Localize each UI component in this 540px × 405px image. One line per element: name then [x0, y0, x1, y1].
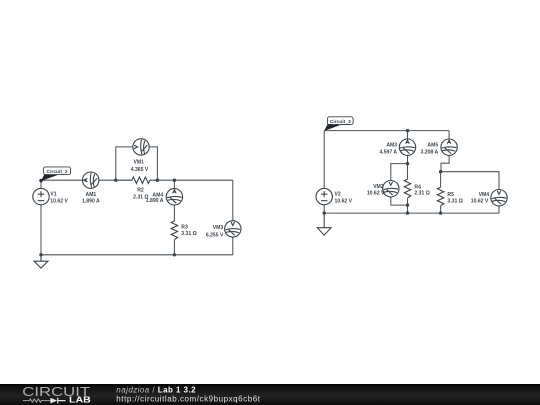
- junction V2 bottom / ground: [323, 211, 326, 214]
- svg-text:R5: R5: [447, 192, 454, 198]
- ammeter AM4: [166, 189, 182, 205]
- wire VM1 parallel loop: [116, 147, 158, 180]
- resistor R4: [404, 179, 410, 198]
- junction R5 top node: [439, 170, 442, 173]
- voltmeter VM1: [133, 139, 149, 155]
- junction bottom rail at V1/ground: [39, 253, 42, 256]
- svg-text:R2: R2: [137, 188, 144, 194]
- label R3 value: [181, 224, 196, 237]
- svg-text:Circuit_3: Circuit_3: [330, 119, 351, 125]
- svg-text:V2: V2: [335, 192, 341, 198]
- wire V1 branch vertical: [40, 180, 42, 255]
- wire bottom rail: [41, 254, 233, 256]
- CircuitLab logo wordmark LAB: [69, 396, 91, 405]
- label R2 value: [133, 188, 148, 201]
- CircuitLab logo schematic line with resistor and diode: [23, 398, 66, 404]
- label AM4 value: [146, 193, 164, 204]
- svg-text:10.62 V: 10.62 V: [471, 199, 489, 205]
- svg-text:V1: V1: [50, 192, 56, 198]
- wire AM5 branch with jog: [441, 131, 449, 172]
- footer bar: [0, 384, 540, 405]
- footer url: [116, 395, 260, 404]
- svg-text:http://circuitlab.com/ck9bupxq: http://circuitlab.com/ck9bupxq6cb6t: [116, 395, 260, 404]
- junction R5 bottom rail: [439, 211, 442, 214]
- ammeter AM5: [441, 139, 457, 155]
- junction AM3 bottom node: [406, 162, 409, 165]
- footer circuit title: [116, 385, 196, 394]
- label VM1 value: [131, 159, 149, 173]
- wire top rail: AM1 to node B: [99, 179, 116, 181]
- svg-text:Circuit_2: Circuit_2: [47, 169, 68, 175]
- voltage source V2: [316, 188, 332, 204]
- svg-text:10.62 V: 10.62 V: [367, 191, 385, 197]
- svg-text:3.208 A: 3.208 A: [421, 150, 439, 156]
- svg-text:3.31 Ω: 3.31 Ω: [447, 199, 462, 205]
- label R5 value: [447, 192, 462, 204]
- label R4 value: [414, 184, 429, 196]
- junction node D (AM4 branch top): [173, 179, 176, 182]
- label V2 value: [335, 192, 353, 205]
- svg-text:6.255 V: 6.255 V: [206, 232, 224, 238]
- voltage source V1: [33, 188, 49, 204]
- label V1 value: [50, 192, 68, 205]
- wire AM3 branch: [407, 131, 409, 164]
- ground (left circuit): [34, 255, 48, 268]
- wire R5 leads: [440, 172, 442, 213]
- wire VM3 branch: [232, 180, 234, 255]
- junction bottom rail at R3: [173, 253, 176, 256]
- wire VM2 loop: [391, 164, 408, 206]
- label AM5 value: [421, 142, 439, 155]
- svg-text:1.890 A: 1.890 A: [82, 198, 100, 204]
- svg-text:VM3: VM3: [213, 225, 224, 231]
- svg-text:VM4: VM4: [479, 192, 490, 198]
- svg-text:10.62 V: 10.62 V: [335, 198, 353, 204]
- wire top rail: node C to VM3 branch: [157, 179, 232, 181]
- resistor R5: [437, 187, 443, 206]
- svg-text:najdzioa / Lab 1 3.2: najdzioa / Lab 1 3.2: [116, 385, 196, 394]
- svg-text:VM2: VM2: [373, 184, 384, 190]
- junction node B: [114, 179, 117, 182]
- ammeter AM1: [83, 172, 99, 188]
- CircuitLab logo wordmark CIRCUIT: [22, 384, 90, 399]
- voltmeter VM3: [225, 221, 241, 237]
- svg-text:R4: R4: [414, 184, 421, 190]
- svg-text:AM5: AM5: [427, 142, 438, 148]
- svg-text:10.62 V: 10.62 V: [50, 198, 68, 204]
- node flag Circuit_2: [39, 167, 70, 182]
- wire bottom rail right: [324, 212, 499, 214]
- wire top rail left: node to AM1: [41, 179, 82, 181]
- voltmeter VM4: [491, 190, 507, 206]
- svg-text:LAB: LAB: [69, 396, 91, 405]
- resistor R2: [116, 177, 158, 183]
- junction top rail at AM3: [406, 129, 409, 132]
- wire R4 leads: [407, 164, 409, 214]
- wire top rail right circuit: [324, 130, 449, 132]
- ground (right circuit): [317, 213, 331, 235]
- svg-text:4.365 V: 4.365 V: [131, 167, 149, 173]
- ammeter AM3: [399, 139, 415, 155]
- svg-text:R3: R3: [181, 224, 188, 230]
- label AM1 value: [82, 192, 100, 204]
- label VM2 value: [367, 184, 385, 197]
- label AM3 value: [379, 142, 397, 155]
- node flag Circuit_3: [324, 117, 353, 131]
- junction R4 bottom rail: [406, 211, 409, 214]
- svg-text:1.890 A: 1.890 A: [146, 198, 164, 204]
- resistor R3: [171, 221, 177, 240]
- junction node C: [156, 179, 159, 182]
- voltmeter VM2: [383, 181, 399, 197]
- svg-text:4.597 A: 4.597 A: [379, 150, 397, 156]
- svg-text:3.31 Ω: 3.31 Ω: [181, 231, 196, 237]
- wire AM4/R3 branch: [173, 180, 175, 255]
- wire VM4 loop: [441, 172, 499, 213]
- svg-text:AM3: AM3: [386, 142, 397, 148]
- svg-text:AM1: AM1: [86, 192, 97, 198]
- label VM4 value: [471, 192, 490, 204]
- wire V2 branch vertical: [323, 131, 325, 214]
- junction VM2 bottom node: [406, 203, 409, 206]
- svg-text:2.31 Ω: 2.31 Ω: [414, 191, 429, 197]
- svg-text:VM1: VM1: [133, 159, 144, 165]
- label VM3 value: [206, 225, 224, 238]
